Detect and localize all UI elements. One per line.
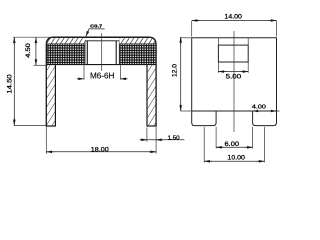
M6-6H extension line left — [83, 65, 85, 79]
svg-text:6.00: 6.00 — [225, 141, 240, 148]
svg-text:4.00: 4.00 — [252, 105, 266, 111]
thread major diameter thin line right — [118, 41, 120, 65]
M6-6H arrow right — [121, 78, 128, 80]
cavity ceiling / knurl band bottom line — [46, 64, 156, 66]
svg-text:4.50: 4.50 — [25, 43, 32, 58]
C0.7 leader arrow — [86, 29, 105, 37]
vertical center line — [233, 31, 235, 132]
svg-text:10.00: 10.00 — [227, 155, 245, 162]
left wall bottom end — [46, 125, 56, 127]
bottom edge line across feet — [192, 110, 277, 112]
14.00 left extension line — [191, 21, 193, 37]
14.00 right extension line — [276, 21, 278, 37]
hole wall right — [115, 41, 117, 65]
left wall inner edge — [54, 65, 56, 126]
M6-6H extension line right — [119, 65, 121, 79]
4.50 top extension line — [13, 36, 52, 38]
4.50 dimension line — [35, 37, 37, 65]
svg-text:5.00: 5.00 — [226, 73, 242, 80]
10.00 right extension line — [263, 127, 265, 163]
14.00 dimension line — [192, 20, 277, 22]
thread major diameter thin line left — [84, 41, 86, 65]
14.50 dimension line — [13, 37, 15, 125]
knurl band top boundary left — [46, 43, 85, 45]
6.00 dimension line — [216, 146, 252, 148]
10.00 left extension line — [203, 127, 205, 163]
10.00 dimension line — [204, 160, 264, 162]
18.00 / 1.50 shared right extension line — [155, 127, 157, 154]
4.00 dimension line (on notch floor level) — [253, 110, 280, 112]
M6-6H arrow left — [77, 78, 84, 80]
square edge extension up left — [217, 38, 219, 45]
hole wall left — [86, 41, 88, 65]
hole gap white-out in knurl band — [85, 43, 119, 65]
inner square hole — [218, 45, 248, 62]
5.00 dimension line — [219, 71, 249, 73]
outer outline of cap — [46, 37, 156, 126]
5.00 right extension line — [247, 63, 249, 73]
6.00 left extension line — [215, 127, 217, 149]
outer outline with feet — [192, 38, 277, 126]
hole center line — [101, 33, 103, 71]
18.00 dimension line — [46, 151, 156, 153]
12.0 top extension line — [180, 37, 191, 39]
svg-text:M6-6H: M6-6H — [90, 71, 115, 80]
right wall bottom end — [146, 125, 156, 127]
5.00 left extension line — [217, 63, 219, 73]
4.50 bottom extension line — [34, 64, 48, 66]
svg-text:18.00: 18.00 — [91, 146, 109, 153]
hole gap white-out in hatch band — [85, 36, 120, 45]
svg-text:14.50: 14.50 — [6, 74, 13, 94]
top surface line across hole — [53, 36, 149, 38]
knurl band top boundary right — [120, 43, 157, 45]
18.00 left extension line — [45, 127, 47, 154]
svg-text:12.0: 12.0 — [171, 64, 178, 77]
right wall inner edge — [146, 65, 148, 126]
svg-text:1.50: 1.50 — [168, 135, 180, 141]
right wall hatch — [148, 65, 156, 125]
svg-text:14.00: 14.00 — [224, 13, 242, 20]
12.0 bottom extension line — [180, 110, 191, 112]
1.50 dimension line with outside arrows — [140, 139, 185, 141]
left wall hatch — [47, 65, 55, 125]
knurl band — [46, 44, 156, 64]
6.00 right extension line — [252, 127, 254, 149]
square edge extension up right — [247, 38, 249, 45]
1.50 inner extension line — [146, 128, 148, 142]
14.50 bottom extension line — [14, 125, 46, 127]
top cap hatch band — [46, 38, 156, 44]
chamfer line under top (across hole region) — [85, 40, 120, 42]
12.0 dimension line — [180, 37, 182, 111]
svg-text:C0.7: C0.7 — [90, 23, 102, 29]
